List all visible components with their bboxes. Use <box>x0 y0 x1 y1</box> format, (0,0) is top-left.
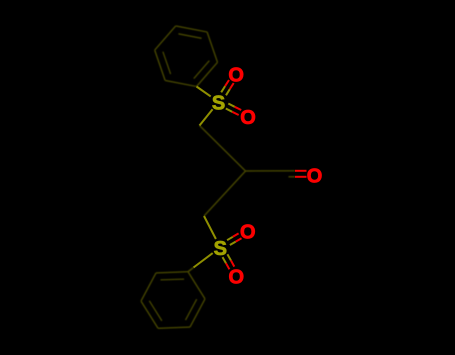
svg-text:S: S <box>212 92 225 114</box>
svg-text:O: O <box>240 222 256 244</box>
svg-text:O: O <box>307 165 323 187</box>
svg-text:O: O <box>240 107 256 129</box>
svg-text:O: O <box>228 64 244 86</box>
svg-text:S: S <box>214 238 227 260</box>
svg-text:O: O <box>229 266 245 288</box>
